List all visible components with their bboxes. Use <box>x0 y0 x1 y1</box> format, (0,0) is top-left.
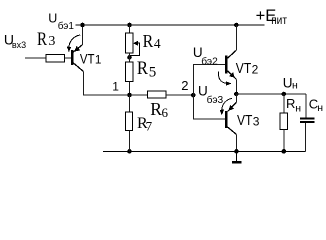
label VT1 <box>80 51 102 66</box>
resistor R4 (adjustable) <box>126 33 140 55</box>
svg-text:U: U <box>48 11 57 25</box>
svg-text:VT: VT <box>80 51 95 66</box>
wire: R6 to node 2 <box>166 94 193 96</box>
resistor Rн <box>280 113 287 130</box>
svg-text:бэ2: бэ2 <box>201 56 218 68</box>
wire: node 2 down to VT3 base <box>193 95 225 119</box>
transistor VT1 (PNP) <box>71 45 83 72</box>
wire: VT1 emitter up to +E rail <box>82 25 84 45</box>
label R7 <box>137 115 153 134</box>
label Cн <box>309 96 324 114</box>
ground symbol <box>232 151 242 162</box>
node 1 junction dot <box>127 93 132 98</box>
junction: VT2 collector on rail <box>234 23 239 28</box>
wire: top rail +Eпит <box>76 24 265 26</box>
junction: Rн top <box>282 92 287 97</box>
svg-text:1: 1 <box>112 80 119 94</box>
junction: R4 top on rail <box>127 23 132 28</box>
svg-text:бэ1: бэ1 <box>58 20 74 32</box>
svg-text:н: н <box>295 103 301 115</box>
wire: VT2 emitter down to output node <box>235 79 237 94</box>
wire: VT1 collector down and right to node 1 <box>84 72 148 96</box>
junction: R4/R5 wiper node <box>127 55 132 60</box>
label R4 <box>143 31 161 51</box>
svg-text:5: 5 <box>149 65 157 81</box>
svg-text:пит: пит <box>271 15 287 27</box>
svg-text:R: R <box>137 58 148 79</box>
wire: R7 to bottom rail <box>129 131 131 152</box>
label node 2 <box>181 78 188 93</box>
wire: bottom rail <box>103 150 306 152</box>
svg-text:3: 3 <box>48 34 55 49</box>
wire: Rн bottom lead <box>283 130 285 152</box>
wire: R4 top lead <box>129 25 131 33</box>
label VT3 <box>237 113 260 129</box>
label node 1 <box>112 80 119 94</box>
label Rн <box>286 96 301 115</box>
label Uн <box>283 75 298 91</box>
svg-text:3: 3 <box>253 114 260 128</box>
wire: output node down to VT3 emitter <box>235 94 237 103</box>
svg-text:VT: VT <box>237 113 253 129</box>
wire: VT3 collector down to bottom rail <box>236 135 238 152</box>
label VT2 <box>236 61 259 77</box>
resistor R6 <box>148 91 167 98</box>
transistor VT2 (NPN) <box>225 50 236 79</box>
wire: R4 to R5 <box>129 53 131 62</box>
transistor VT3 (PNP) <box>225 103 236 135</box>
label +Eпит <box>256 7 288 27</box>
wire: output to Uн / Cн <box>236 93 306 95</box>
svg-text:6: 6 <box>162 105 169 120</box>
label Uвх3 <box>4 32 26 50</box>
annotation arrow Uбэ2 <box>218 71 231 85</box>
label R5 <box>137 58 156 80</box>
wire: input Uвх3 to R3 <box>25 57 46 59</box>
label R6 <box>150 99 168 120</box>
svg-text:вх3: вх3 <box>12 40 26 50</box>
resistor R3 <box>46 55 65 62</box>
label Uбэ1 <box>48 11 74 32</box>
label Uбэ2 <box>193 45 218 68</box>
wire: R3 to VT1 base <box>65 57 72 59</box>
svg-text:2: 2 <box>181 78 188 93</box>
svg-text:бэ3: бэ3 <box>207 94 224 106</box>
junction: Rн bottom on rail <box>282 149 287 154</box>
resistor R5 <box>126 62 133 82</box>
wire: Rн top lead <box>283 94 285 113</box>
output node junction dot <box>234 92 239 97</box>
capacitor Cн <box>300 94 315 151</box>
svg-text:н: н <box>317 102 323 114</box>
resistor R7 <box>126 112 133 130</box>
svg-text:R: R <box>150 99 162 119</box>
annotation arrow Uбэ3 <box>220 98 233 115</box>
label R3 <box>37 29 55 50</box>
svg-text:U: U <box>283 75 293 90</box>
svg-text:7: 7 <box>146 119 153 134</box>
svg-text:н: н <box>292 80 298 92</box>
svg-text:1: 1 <box>95 52 102 66</box>
svg-text:4: 4 <box>154 36 161 51</box>
junction: R7 bottom on rail <box>127 149 132 154</box>
wire: node 1 down to R7 <box>129 95 131 112</box>
svg-text:2: 2 <box>252 62 259 76</box>
wire: R5 to node 1 <box>129 82 131 96</box>
node 2 junction dot <box>191 93 196 98</box>
wire: node 2 up to VT2 base <box>193 65 225 96</box>
svg-text:R: R <box>143 31 154 51</box>
svg-text:VT: VT <box>236 61 252 77</box>
label Uбэ3 <box>198 83 223 106</box>
annotation arrow Uбэ1 <box>67 35 80 52</box>
wire: VT2 collector up to rail <box>235 25 237 50</box>
junction: VT3/ground on bottom rail <box>234 149 239 154</box>
svg-text:R: R <box>37 29 47 50</box>
junction: VT1 emitter on rail <box>80 23 85 28</box>
svg-text:R: R <box>286 96 295 111</box>
